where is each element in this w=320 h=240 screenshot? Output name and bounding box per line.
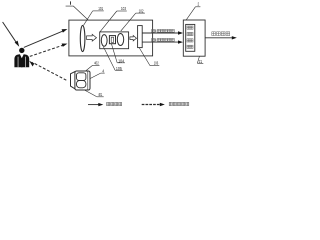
label 2 with leader <box>186 2 200 20</box>
box 2 : signal processing unit <box>183 20 205 56</box>
aperture square <box>109 36 115 44</box>
label 102 with leader <box>121 8 145 31</box>
photodetector thin rect <box>138 26 143 48</box>
label 401 with leader <box>85 90 104 97</box>
svg-text:2: 2 <box>198 2 200 7</box>
svg-text:4: 4 <box>102 68 104 73</box>
label 1 with leader <box>66 1 89 20</box>
svg-text:102: 102 <box>139 8 145 13</box>
svg-text:21: 21 <box>199 59 203 64</box>
body <box>75 71 90 90</box>
wire solid signal-light arrow person to box 1 <box>24 29 68 47</box>
wire dashed return-light arrow person to box 1 <box>30 44 68 57</box>
legend solid arrow <box>88 102 122 106</box>
label 402 with leader <box>86 61 100 71</box>
aperture slit bar <box>111 37 113 42</box>
wire electrical signal 1 to box 2 <box>142 29 183 34</box>
text returned light <box>169 102 172 105</box>
wire incident-light arrow into person <box>3 22 20 47</box>
text processing unit rows <box>187 26 190 29</box>
label 21 with leader (below box 2) <box>197 56 203 63</box>
box 1 : receiving module <box>69 20 153 56</box>
label 104 with leader (below box) <box>112 44 126 63</box>
label 106 with leader (photodetector) <box>139 48 159 66</box>
wire output signal arrow <box>205 32 237 40</box>
label 103 with leader <box>100 6 127 32</box>
person (measured subject) <box>14 48 29 68</box>
divider <box>87 71 89 90</box>
block arrow (light path to optics) <box>87 34 97 41</box>
label 4 with leader <box>90 68 105 78</box>
svg-text:402: 402 <box>94 61 99 66</box>
wire electrical signal 2 to box 2 <box>142 38 183 43</box>
svg-text:103: 103 <box>121 6 127 11</box>
label 101 with leader <box>84 6 104 25</box>
small lens a <box>101 35 107 47</box>
wire dashed beam arrow emitter 4 to person <box>29 61 66 80</box>
inner element top <box>77 73 86 81</box>
block arrow 2 (to photodetector) <box>130 36 137 41</box>
horn <box>71 71 76 89</box>
lens 101 (large collecting lens) <box>80 25 85 51</box>
emitter 4 : light source <box>71 71 91 90</box>
text first-channel electrical signal <box>152 29 155 32</box>
svg-text:101: 101 <box>98 6 103 11</box>
inner element bottom <box>77 80 86 87</box>
svg-text:106: 106 <box>154 61 159 66</box>
text second-channel electrical signal <box>152 38 155 41</box>
text signal light <box>107 102 110 105</box>
small lens b <box>117 34 123 46</box>
label 105 with leader (below box) <box>103 47 122 71</box>
inner processing block <box>186 24 195 51</box>
svg-text:401: 401 <box>98 92 103 97</box>
legend dashed arrow <box>142 102 189 106</box>
inner optics box <box>100 32 129 49</box>
text output signal <box>212 32 216 36</box>
